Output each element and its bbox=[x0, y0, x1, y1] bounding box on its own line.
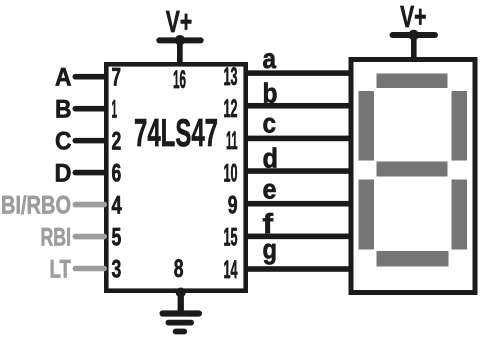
pin 16 bbox=[173, 66, 186, 94]
segment g (middle) bbox=[377, 162, 448, 177]
segment c (bottom-right) bbox=[452, 180, 468, 250]
wire RBI to pin 5 bbox=[73, 234, 108, 240]
svg-text:D: D bbox=[55, 160, 72, 188]
segment a (top) bbox=[377, 74, 448, 89]
wire ground stem from pin 8 bbox=[178, 290, 184, 313]
wire e: pin 9 to display bbox=[246, 201, 353, 207]
wire V+ stem to display top bbox=[411, 35, 417, 62]
wire A to pin 7 bbox=[73, 74, 108, 80]
pin 2 bbox=[112, 128, 122, 156]
node A label bbox=[55, 64, 72, 92]
node C label bbox=[55, 128, 72, 156]
svg-text:BI/RBO: BI/RBO bbox=[1, 192, 71, 220]
pin 6 bbox=[112, 160, 122, 188]
power V+ symbol (above display) bbox=[390, 0, 439, 40]
svg-text:LT: LT bbox=[50, 255, 72, 283]
pin 4 bbox=[112, 192, 122, 220]
wire c: pin 11 to display bbox=[246, 136, 353, 142]
ground symbol (below IC pin 8) bbox=[160, 288, 203, 335]
svg-text:13: 13 bbox=[224, 63, 238, 91]
svg-text:10: 10 bbox=[224, 159, 238, 187]
node B label bbox=[55, 96, 72, 124]
svg-text:2: 2 bbox=[112, 128, 122, 156]
svg-text:15: 15 bbox=[224, 224, 238, 252]
pin 5 bbox=[112, 223, 122, 251]
wire a: pin 13 to display bbox=[246, 70, 353, 76]
display DS1 body (7-segment display) bbox=[351, 60, 475, 293]
svg-text:5: 5 bbox=[112, 223, 122, 251]
segment e (bottom-left) bbox=[359, 180, 375, 250]
svg-text:b: b bbox=[263, 78, 278, 109]
svg-text:e: e bbox=[263, 174, 277, 205]
wire d: pin 10 to display bbox=[246, 168, 353, 174]
pin 3 bbox=[112, 255, 122, 283]
pin 14 bbox=[224, 256, 238, 284]
net f label bbox=[263, 208, 274, 239]
svg-text:4: 4 bbox=[112, 192, 122, 220]
pin 11 bbox=[226, 127, 238, 155]
net c label bbox=[263, 108, 277, 139]
svg-text:a: a bbox=[263, 43, 277, 74]
wire f: pin 15 to display bbox=[246, 234, 353, 240]
svg-text:c: c bbox=[263, 108, 277, 139]
svg-text:RBI: RBI bbox=[41, 223, 72, 251]
wire LT to pin 3 bbox=[73, 266, 108, 272]
svg-text:3: 3 bbox=[112, 255, 122, 283]
svg-text:g: g bbox=[263, 234, 278, 265]
segment f (top-left) bbox=[359, 91, 375, 161]
svg-text:A: A bbox=[55, 64, 72, 92]
svg-text:V+: V+ bbox=[400, 0, 426, 34]
IC U1 74LS47 body bbox=[106, 64, 245, 290]
wire b: pin 12 to display bbox=[246, 103, 353, 109]
pin 9 bbox=[228, 192, 238, 220]
svg-text:16: 16 bbox=[173, 66, 186, 94]
pin 1 bbox=[112, 96, 118, 124]
svg-text:6: 6 bbox=[112, 160, 122, 188]
svg-text:d: d bbox=[263, 142, 279, 173]
net a label bbox=[263, 43, 277, 74]
wire g: pin 14 to display bbox=[246, 266, 353, 272]
svg-text:14: 14 bbox=[224, 256, 238, 284]
svg-text:12: 12 bbox=[224, 95, 238, 123]
pin 15 bbox=[224, 224, 238, 252]
IC value label 74LS47 bbox=[134, 112, 218, 155]
pin 7 bbox=[112, 64, 122, 92]
svg-text:B: B bbox=[55, 96, 72, 124]
svg-text:11: 11 bbox=[226, 127, 238, 155]
node LT label bbox=[50, 255, 72, 283]
pin 8 bbox=[174, 255, 184, 283]
net g label bbox=[263, 234, 278, 265]
node BI/RBO label bbox=[1, 192, 71, 220]
wire D to pin 6 bbox=[73, 170, 108, 176]
svg-text:C: C bbox=[55, 128, 72, 156]
segment b (top-right) bbox=[452, 91, 468, 161]
node RBI label bbox=[41, 223, 72, 251]
svg-text:V+: V+ bbox=[166, 5, 192, 39]
pin 12 bbox=[224, 95, 238, 123]
svg-text:8: 8 bbox=[174, 255, 184, 283]
wire B to pin 1 bbox=[73, 106, 108, 112]
net b label bbox=[263, 78, 278, 109]
svg-text:1: 1 bbox=[112, 96, 118, 124]
svg-text:9: 9 bbox=[228, 192, 238, 220]
wire V+ stem to pin 16 bbox=[177, 40, 183, 66]
power V+ symbol (above IC) bbox=[156, 5, 203, 45]
pin 13 bbox=[224, 63, 238, 91]
wire BI/RBO to pin 4 bbox=[73, 202, 108, 208]
net e label bbox=[263, 174, 277, 205]
svg-text:7: 7 bbox=[112, 64, 122, 92]
svg-text:74LS47: 74LS47 bbox=[134, 112, 218, 155]
node D label bbox=[55, 160, 72, 188]
wire C to pin 2 bbox=[73, 138, 108, 144]
net d label bbox=[263, 142, 279, 173]
pin 10 bbox=[224, 159, 238, 187]
segment d (bottom) bbox=[377, 251, 449, 267]
